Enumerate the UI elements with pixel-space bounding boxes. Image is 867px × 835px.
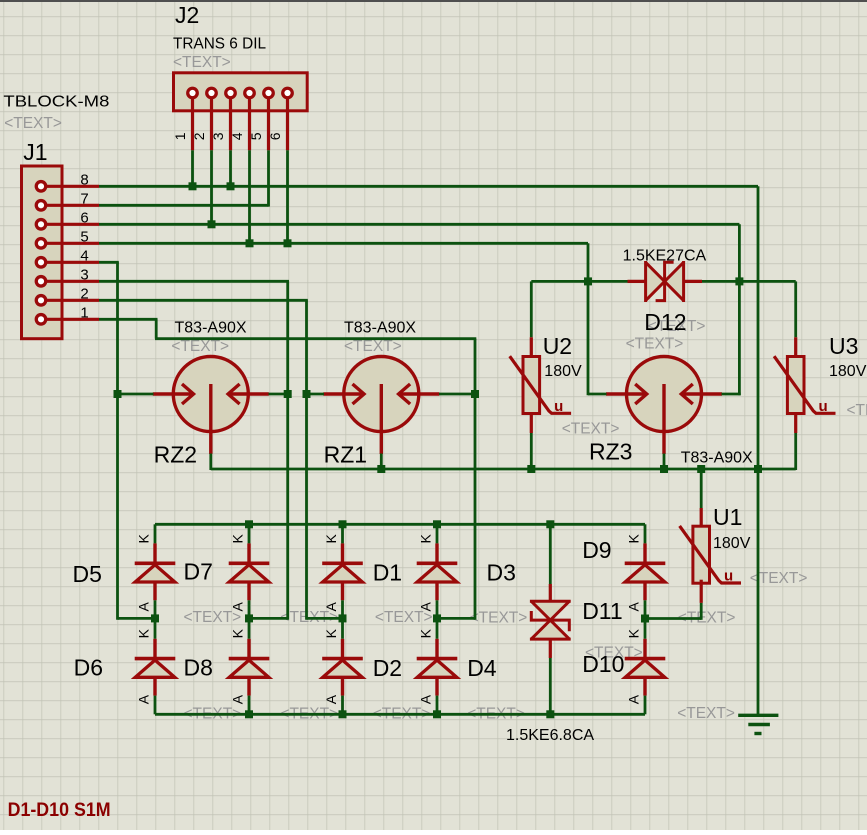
connector J1 body: [22, 166, 63, 339]
svg-text:<TEXT>: <TEXT>: [171, 338, 229, 355]
wire D11 bottom green: [549, 658, 552, 714]
wire D9 cathode green: [644, 524, 647, 543]
wire pin4 vertical: [116, 262, 119, 619]
GDT RZ1 body: [344, 357, 419, 432]
wire D9 anode green: [644, 600, 647, 618]
wire J2 pin6 drop: [286, 150, 289, 243]
svg-text:D8: D8: [184, 655, 213, 681]
J2 pin 4 stub: [248, 99, 251, 151]
J1 pin 5 stub: [46, 242, 99, 245]
junction RZ1 right / pin1 vertical: [471, 390, 479, 398]
D6 anode lead: [153, 677, 156, 695]
svg-text:u: u: [819, 398, 828, 415]
svg-text:6: 6: [267, 132, 283, 140]
D6 cathode lead: [153, 639, 156, 659]
connector J1 pin 6 pad: [36, 220, 46, 230]
svg-text:8: 8: [80, 171, 88, 188]
diode D7 (S1M): [229, 561, 270, 565]
connector J2 pin 6 pad: [283, 88, 293, 98]
svg-text:1.5KE6.8CA: 1.5KE6.8CA: [506, 727, 594, 744]
svg-text:K: K: [323, 534, 339, 544]
connector J2 body: [174, 73, 308, 111]
svg-text:<TEXT>: <TEXT>: [173, 54, 231, 71]
GDT RZ1 right electrode arrow: [399, 392, 440, 395]
junction D12 row / pin6 vertical: [735, 277, 743, 285]
ground symbol: [738, 714, 778, 717]
wire D8 cathode green: [248, 618, 251, 638]
svg-text:A: A: [230, 602, 246, 612]
wire J2 pin5 drop: [267, 150, 270, 206]
J2 pin 1 stub: [191, 99, 194, 151]
wire pin6-row vertical to RZ3 right: [738, 224, 741, 395]
D9 anode lead: [643, 582, 646, 600]
junction RZ2 left / pin4 vertical: [114, 390, 122, 398]
wire D6 cathode green: [154, 618, 157, 638]
wire J1 pin1 jog down: [155, 319, 158, 338]
junction U2 bottom on rail: [527, 465, 535, 473]
svg-text:K: K: [626, 534, 642, 544]
D8 anode lead: [247, 677, 250, 695]
D11 top lead: [549, 584, 552, 601]
wire J1 pin2 row: [99, 299, 308, 302]
svg-text:J1: J1: [23, 139, 47, 165]
varistor U1 diagonal stroke: [680, 526, 741, 583]
J1 pin 8 stub: [46, 185, 99, 188]
svg-text:TRANS 6 DIL: TRANS 6 DIL: [173, 36, 266, 53]
svg-text:K: K: [136, 534, 152, 544]
D4 anode lead: [435, 677, 438, 695]
diode D6 (S1M): [135, 657, 176, 661]
junction D5/D6 mid: [151, 614, 159, 622]
svg-text:RZ2: RZ2: [154, 442, 197, 468]
GDT RZ1 centre electrode: [380, 384, 383, 454]
wire J1 pin1 jog across: [155, 337, 476, 340]
diode D9 (S1M): [625, 561, 666, 565]
connector J1 pin 1 pad: [36, 315, 46, 325]
wire RZ1 left arm green: [307, 393, 325, 396]
wire U3 bottom green: [794, 433, 797, 470]
wire J1 pin6 row: [99, 223, 739, 226]
junction J2.2 to pin6 row: [208, 220, 216, 228]
wire D5 cathode green: [154, 524, 157, 543]
J2 pin 5 stub: [267, 99, 270, 151]
connector J1 pin 4 pad: [36, 258, 46, 268]
junction D2 bottom on rail: [339, 710, 347, 718]
junction J2.1 to pin8 row: [189, 182, 197, 190]
svg-text:A: A: [418, 602, 434, 612]
svg-text:180V: 180V: [829, 363, 867, 380]
wire J2 pin2 drop: [210, 150, 213, 224]
svg-text:A: A: [323, 602, 339, 612]
GDT RZ3 right electrode arrow: [681, 392, 722, 395]
junction D7 top on rail: [245, 520, 253, 528]
D5 cathode lead: [153, 543, 156, 563]
D3 cathode lead: [435, 543, 438, 563]
connector J2 pin 1 pad: [188, 88, 198, 98]
connector J2 pin 5 pad: [264, 88, 274, 98]
svg-text:D6: D6: [74, 655, 103, 681]
junction D8 bottom on rail: [245, 710, 253, 718]
svg-text:A: A: [136, 602, 152, 612]
D1 anode lead: [341, 582, 344, 600]
J1 pin 4 stub: [46, 261, 99, 264]
svg-text:180V: 180V: [544, 363, 582, 380]
D10 cathode lead: [643, 639, 646, 659]
wire J1 pin3 row: [99, 280, 289, 283]
D10 anode lead: [643, 677, 646, 695]
wire RZ1 right arm green: [439, 393, 476, 396]
wire RZ2 bottom green: [209, 454, 212, 471]
D7 anode lead: [247, 582, 250, 600]
GDT RZ3 left electrode arrow: [606, 392, 647, 395]
U1 top lead: [700, 508, 703, 526]
wire U1 bottom green: [700, 603, 703, 620]
U1 bottom lead: [700, 580, 703, 603]
wire D1 anode green: [341, 600, 344, 618]
wire D1 cathode green: [341, 524, 344, 543]
J1 pin 6 stub: [46, 223, 99, 226]
wire RZ3 left arm green: [588, 393, 607, 396]
wire D4 cathode green: [436, 618, 439, 638]
svg-text:D7: D7: [184, 559, 213, 585]
svg-text:D3: D3: [487, 560, 516, 586]
junction J2.3 to pin8 row: [227, 182, 235, 190]
varistor U2 diagonal stroke: [510, 356, 571, 413]
svg-text:3: 3: [210, 132, 226, 140]
wire D8 anode green: [248, 696, 251, 715]
connector J1 pin 8 pad: [36, 182, 46, 192]
svg-text:K: K: [136, 628, 152, 638]
svg-text:D5: D5: [73, 561, 102, 587]
svg-text:T83-A90X: T83-A90X: [175, 320, 247, 337]
svg-text:2: 2: [191, 132, 207, 140]
wire RZ1 bottom green: [380, 454, 383, 471]
GDT RZ3 centre electrode: [662, 384, 665, 454]
J2 pin 6 stub: [286, 99, 289, 151]
diode D2 (S1M): [322, 657, 363, 661]
wire RZ2 right arm green: [269, 393, 290, 396]
junction D1/D2 mid: [339, 614, 347, 622]
GDT RZ2 right electrode arrow: [228, 392, 269, 395]
svg-text:3: 3: [80, 266, 88, 283]
wire U2 bottom green: [530, 433, 533, 470]
wire D3 cathode green: [436, 524, 439, 543]
wire D7 anode green: [248, 600, 251, 618]
svg-text:2: 2: [80, 285, 88, 302]
svg-text:4: 4: [229, 132, 245, 140]
diode D4 (S1M): [417, 657, 458, 661]
J1 pin 2 stub: [46, 299, 99, 302]
junction RZ3 bottom on rail: [660, 465, 668, 473]
D12 left lead: [628, 280, 646, 283]
svg-text:U1: U1: [713, 504, 742, 530]
svg-text:D1-D10 S1M: D1-D10 S1M: [8, 800, 111, 821]
wire earth vertical: [757, 186, 760, 715]
svg-text:1.5KE27CA: 1.5KE27CA: [623, 248, 707, 265]
svg-text:K: K: [230, 628, 246, 638]
wire pin1 vertical: [474, 339, 477, 620]
svg-text:A: A: [230, 694, 246, 704]
svg-text:RZ1: RZ1: [324, 442, 367, 468]
wire pin2 to D1/D2 mid: [307, 617, 343, 620]
wire U3 top green: [794, 281, 797, 337]
svg-text:D1: D1: [373, 560, 402, 586]
GDT RZ1 left electrode arrow: [323, 392, 364, 395]
connector J2 pin 4 pad: [245, 88, 255, 98]
wire U2 top to D12 left: [531, 280, 627, 283]
J1 pin 7 stub: [46, 204, 99, 207]
junction RZ1 left / pin2 vertical: [303, 390, 311, 398]
svg-text:A: A: [418, 694, 434, 704]
wire J2 pin3 drop: [229, 150, 232, 186]
U3 top lead: [794, 337, 797, 356]
wire pin3 to D7/D8 mid: [249, 617, 288, 620]
wire RZ3 bottom green: [663, 454, 666, 471]
svg-text:K: K: [323, 628, 339, 638]
svg-text:A: A: [323, 694, 339, 704]
D1 cathode lead: [341, 543, 344, 563]
wire J1 pin1 row: [99, 318, 158, 321]
junction earth vertical on rail: [754, 465, 762, 473]
wire D2 cathode green: [341, 618, 344, 638]
wire D11 top green: [549, 524, 552, 584]
wire D10 cathode green: [644, 618, 647, 638]
svg-text:A: A: [626, 694, 642, 704]
junction D11 top on rail: [546, 520, 554, 528]
J1 pin 1 stub: [46, 318, 99, 321]
wire U2 top green: [530, 281, 533, 337]
varistor U3 diagonal stroke: [774, 356, 835, 413]
svg-text:J2: J2: [175, 2, 199, 28]
J1 pin 3 stub: [46, 280, 99, 283]
U3 bottom lead: [794, 414, 797, 434]
svg-text:A: A: [136, 694, 152, 704]
svg-text:<TEXT>: <TEXT>: [626, 336, 684, 353]
wire pin1 to D3/D4 mid: [437, 617, 475, 620]
wire U1 to D9/D10 mid: [645, 617, 701, 620]
D7 cathode lead: [247, 543, 250, 563]
connector J1 pin 3 pad: [36, 277, 46, 287]
svg-text:6: 6: [80, 209, 88, 226]
wire diode cathode top rail: [155, 523, 645, 526]
diode D3 (S1M): [417, 561, 458, 565]
svg-text:K: K: [626, 628, 642, 638]
junction U1 top on rail: [697, 465, 705, 473]
wire J2 pin1 drop: [191, 150, 194, 186]
diode D8 (S1M): [229, 657, 270, 661]
svg-text:D4: D4: [467, 655, 497, 681]
GDT RZ3 body: [627, 357, 702, 432]
diode D1 (S1M): [322, 561, 363, 565]
svg-text:<TEXT>: <TEXT>: [847, 402, 867, 419]
wire pin4 to D5/D6 mid: [118, 617, 156, 620]
svg-text:5: 5: [80, 228, 88, 245]
D9 cathode lead: [643, 543, 646, 563]
svg-text:K: K: [418, 534, 434, 544]
D5 anode lead: [153, 582, 156, 600]
diode D10 (S1M): [625, 657, 666, 661]
svg-text:K: K: [230, 534, 246, 544]
junction D3/D4 mid: [433, 614, 441, 622]
svg-text:u: u: [724, 568, 733, 585]
junction RZ2 right / pin3 vertical: [284, 390, 292, 398]
U2 bottom lead: [530, 414, 533, 434]
junction RZ1 bottom on rail: [377, 465, 385, 473]
wire GDT common bottom rail: [211, 468, 796, 471]
wire D7 cathode green: [248, 524, 251, 543]
connector J1 pin 2 pad: [36, 296, 46, 306]
wire pin3 vertical: [286, 281, 289, 619]
diode D5 (S1M): [135, 561, 176, 565]
svg-text:U2: U2: [543, 333, 572, 359]
wire D4 anode green: [436, 696, 439, 715]
wire J2 pin4 drop: [248, 150, 251, 243]
wire pin2 vertical: [305, 300, 308, 619]
svg-text:<TEXT>: <TEXT>: [4, 115, 62, 132]
wire J1 pin4 row: [99, 261, 119, 264]
svg-text:180V: 180V: [713, 535, 751, 552]
TVS diode D12 (1.5KE27CA): [646, 262, 665, 300]
junction D9/D10 mid: [641, 615, 649, 623]
wire J1 pin7 row: [99, 204, 269, 207]
D8 cathode lead: [247, 639, 250, 659]
sheet top border: [0, 0, 867, 2]
svg-text:5: 5: [248, 132, 264, 140]
junction D1 top on rail: [339, 520, 347, 528]
varistor U1 body: [693, 526, 710, 583]
svg-text:D12: D12: [644, 309, 686, 335]
svg-text:1: 1: [172, 132, 188, 140]
svg-text:T83-A90X: T83-A90X: [344, 320, 416, 337]
svg-text:D2: D2: [373, 655, 402, 681]
junction D12 row / pin5 vertical: [584, 277, 592, 285]
D11 bottom lead: [549, 639, 552, 658]
wire D3 anode green: [436, 600, 439, 618]
D2 anode lead: [341, 677, 344, 695]
svg-text:D9: D9: [582, 537, 611, 563]
GDT RZ2 left electrode arrow: [153, 392, 194, 395]
svg-text:TBLOCK-M8: TBLOCK-M8: [3, 94, 109, 111]
wire RZ3 right arm green: [722, 393, 741, 396]
D12 right lead: [684, 280, 702, 283]
J2 pin 3 stub: [229, 99, 232, 151]
junction D11 bottom on rail: [546, 710, 554, 718]
D2 cathode lead: [341, 639, 344, 659]
D3 anode lead: [435, 582, 438, 600]
svg-text:U3: U3: [829, 333, 858, 359]
connector J2 pin 3 pad: [226, 88, 236, 98]
svg-text:<TEXT>: <TEXT>: [344, 338, 402, 355]
wire D10 anode green: [644, 696, 647, 715]
J2 pin 2 stub: [210, 99, 213, 151]
wire J1 pin8 row (earth net): [99, 185, 758, 188]
svg-text:4: 4: [80, 247, 88, 264]
wire diode anode bottom rail: [155, 713, 645, 716]
svg-text:D11: D11: [582, 598, 623, 624]
wire D6 anode green: [154, 696, 157, 715]
varistor U2 body: [523, 357, 540, 414]
GDT RZ2 body: [173, 357, 248, 432]
GDT RZ2 centre electrode: [209, 384, 212, 454]
svg-text:K: K: [418, 628, 434, 638]
wire RZ2 left arm green: [118, 393, 154, 396]
svg-text:1: 1: [80, 304, 88, 321]
svg-text:<TEXT>: <TEXT>: [562, 421, 620, 438]
svg-text:u: u: [554, 398, 563, 415]
varistor U3 body: [787, 357, 804, 414]
svg-text:T83-A90X: T83-A90X: [681, 450, 753, 467]
junction J2.6 to pin5 row: [284, 239, 292, 247]
connector J1 pin 5 pad: [36, 239, 46, 249]
connector J1 pin 7 pad: [36, 201, 46, 211]
connector J2 pin 2 pad: [207, 88, 217, 98]
wire J1 pin5 row: [99, 242, 588, 245]
D4 cathode lead: [435, 639, 438, 659]
junction D3 top on rail: [433, 520, 441, 528]
junction D7/D8 mid: [245, 614, 253, 622]
wire pin5-row vertical to RZ3 left: [587, 243, 590, 395]
wire D5 anode green: [154, 600, 157, 618]
svg-text:7: 7: [80, 190, 88, 207]
svg-text:D10: D10: [582, 651, 624, 677]
junction D4 bottom on rail: [433, 710, 441, 718]
svg-text:<TEXT>: <TEXT>: [470, 610, 528, 627]
wire D2 anode green: [341, 696, 344, 715]
wire D12 right to U3 top: [702, 280, 796, 283]
wire U1 top green: [700, 469, 703, 508]
junction J2.4 to pin5 row: [246, 239, 254, 247]
svg-text:A: A: [626, 602, 642, 612]
svg-text:RZ3: RZ3: [589, 439, 632, 465]
svg-text:<TEXT>: <TEXT>: [677, 705, 735, 722]
U2 top lead: [530, 337, 533, 356]
